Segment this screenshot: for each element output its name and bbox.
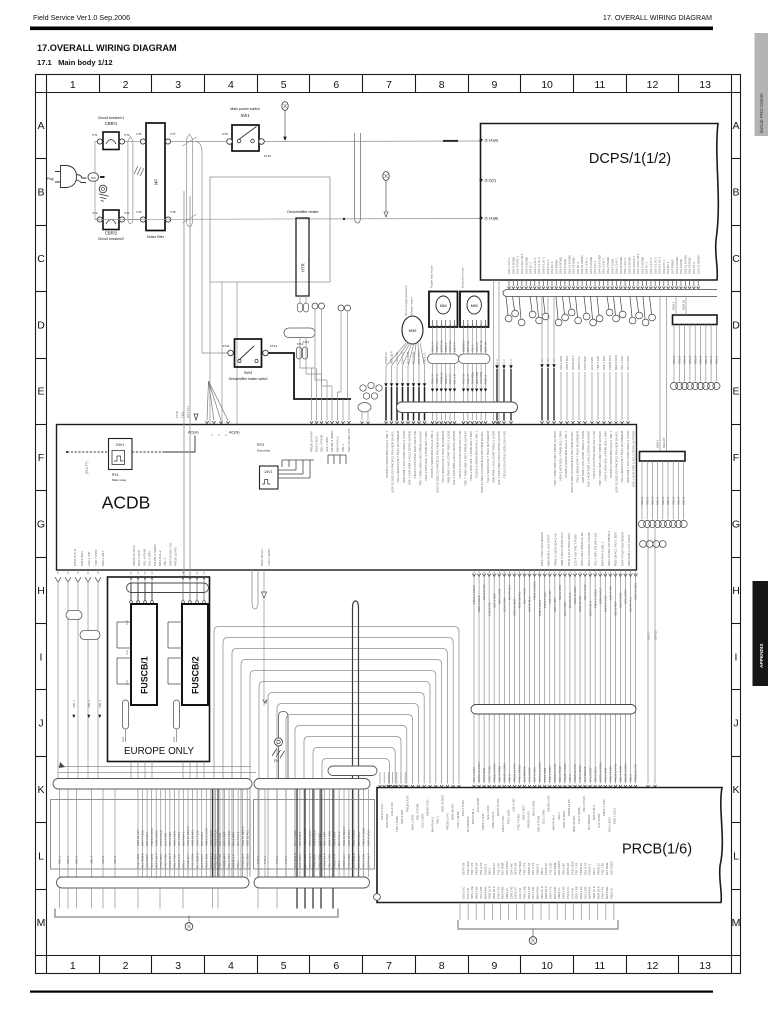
svg-text:M65 PHB-1: M65 PHB-1 — [357, 831, 361, 846]
svg-text:SOL-9: SOL-9 — [651, 496, 655, 505]
nested corner bus — [214, 627, 459, 878]
svg-text:M: M — [37, 917, 46, 929]
svg-text:CN105-3 SG: CN105-3 SG — [547, 795, 551, 812]
svg-text:CN105-3 SGND M64 PHA-2 VBL 1: CN105-3 SGND M64 PHA-2 VBL 1 — [564, 431, 568, 478]
circuit breaker CBR/1 — [93, 116, 130, 150]
ACDB interior tall labels group2 — [553, 430, 635, 493]
svg-text:PS12 SGN: PS12 SGN — [80, 551, 84, 566]
svg-text:I: I — [40, 651, 43, 663]
nested bus arrows into PRCB — [379, 772, 461, 787]
svg-text:PRCB-1A P: PRCB-1A P — [323, 853, 327, 868]
svg-text:13: 13 — [699, 960, 711, 972]
svg-text:TRC 7 P38V SD5-1 RET PRCB-1A P: TRC 7 P38V SD5-1 RET PRCB-1A P24V — [419, 431, 423, 486]
M64 wires upper — [431, 327, 457, 354]
svg-text:S21-1 DRV: S21-1 DRV — [420, 813, 424, 828]
svg-text:FM21-2 LOC: FM21-2 LOC — [602, 799, 606, 816]
open triangle node — [262, 592, 267, 598]
svg-text:S21-1 DRV: S21-1 DRV — [325, 437, 329, 452]
svg-text:M64 PHA: M64 PHA — [466, 340, 470, 352]
svg-text:VBL 1: VBL 1 — [557, 812, 561, 820]
svg-text:FM21-2 L: FM21-2 L — [423, 352, 427, 364]
svg-text:CN105-3: CN105-3 — [462, 341, 466, 352]
svg-text:Sub relay: Sub relay — [257, 449, 271, 453]
svg-text:M64 PHA-2: M64 PHA-2 — [337, 831, 341, 846]
svg-text:S24-1 ACN: S24-1 ACN — [150, 854, 154, 868]
svg-text:HV1 CON: HV1 CON — [479, 372, 483, 384]
svg-text:DCPS-3A PGN: DCPS-3A PGN — [538, 763, 542, 782]
svg-text:HV1 CONT: HV1 CONT — [417, 350, 421, 364]
svg-text:DCPS-3A P: DCPS-3A P — [571, 355, 575, 370]
ACDB distribution board — [57, 425, 637, 571]
svg-text:CN105-3 SGN: CN105-3 SGN — [502, 763, 506, 782]
svg-text:FUSCB/2: FUSCB/2 — [191, 656, 201, 694]
svg-text:(PL1 FT): (PL1 FT) — [186, 406, 190, 418]
svg-text:TY1 2: TY1 2 — [263, 856, 267, 864]
svg-text:TH2-1 SENS CN4-7 P12V RL5 REM-: TH2-1 SENS CN4-7 P12V RL5 REM-B — [620, 431, 624, 483]
svg-text:LD2-4 VID: LD2-4 VID — [590, 357, 594, 370]
M64 pill connector — [428, 354, 460, 364]
europe top pin labels — [130, 583, 206, 603]
hatch marks — [134, 166, 144, 176]
FG ground — [263, 699, 288, 781]
svg-text:HV1 CONT: HV1 CONT — [357, 854, 361, 868]
svg-text:NGB 1B ACL: NGB 1B ACL — [191, 829, 195, 846]
screw terminal mid — [383, 172, 389, 181]
svg-text:S24-1 A: S24-1 A — [431, 342, 435, 352]
right pair to PRCB — [647, 528, 658, 787]
bottom pill C — [57, 877, 250, 888]
svg-text:SD5-1 RET PRCB-1A P2: SD5-1 RET PRCB-1A P2 — [580, 532, 584, 566]
svg-text:CN31-5 CLK: CN31-5 CLK — [159, 830, 163, 846]
svg-text:SOL-9: SOL-9 — [693, 355, 697, 364]
svg-text:CBR 2 ACL: CBR 2 ACL — [565, 355, 569, 370]
svg-text:ACDB: ACDB — [102, 493, 151, 513]
svg-text:SOL-9: SOL-9 — [656, 496, 660, 505]
svg-text:SOL-9: SOL-9 — [715, 355, 719, 364]
bar1 connector circles — [670, 382, 677, 389]
svg-text:CBR 2 ACL2: CBR 2 ACL2 — [308, 830, 312, 846]
wire loop verticals to ACDB — [209, 282, 211, 424]
relay bar CN bar2 — [640, 452, 686, 462]
wires pair below bus left — [493, 280, 495, 421]
svg-text:3: 3 — [175, 960, 181, 972]
svg-text:SGN 16 DEC: SGN 16 DEC — [562, 811, 566, 828]
svg-text:TH2-1 SENS CN4-7 P12V RL5 REM-: TH2-1 SENS CN4-7 P12V RL5 REM-B — [396, 431, 400, 483]
svg-text:SGN 16 DEC: SGN 16 DEC — [441, 795, 445, 812]
svg-text:PRCB-12 P: PRCB-12 P — [241, 853, 245, 868]
DCPS input terminals — [480, 139, 499, 221]
svg-text:TY1 1: TY1 1 — [256, 856, 260, 864]
svg-text:5: 5 — [281, 960, 287, 972]
svg-text:F: F — [38, 452, 44, 464]
svg-text:SGN 16 DEC-CO PRCB-12 P5V NGB: SGN 16 DEC-CO PRCB-12 P5V NGB 1B ACL — [480, 431, 484, 493]
svg-text:SGN 16 DEC-CO: SGN 16 DEC-CO — [168, 542, 172, 566]
svg-text:release motor: release motor — [410, 297, 414, 316]
svg-text:RL5 REM-: RL5 REM- — [406, 351, 410, 364]
svg-text:NGB 1B A: NGB 1B A — [390, 351, 394, 364]
svg-text:RL5 REM-B: RL5 REM-B — [141, 853, 145, 868]
svg-text:SGN 16 DEC-CO PRCB-12 P5V NGB: SGN 16 DEC-CO PRCB-12 P5V NGB 1B ACL — [435, 431, 439, 493]
svg-text:FM21-2 LOCK: FM21-2 LOCK — [593, 589, 597, 608]
wire pair loop small — [128, 137, 133, 224]
TB2 wires and labels — [256, 789, 370, 877]
big pill connector — [397, 402, 518, 413]
svg-text:NGB 1B ACL: NGB 1B ACL — [245, 829, 249, 846]
svg-text:RY1: RY1 — [112, 473, 119, 477]
svg-text:10: 10 — [541, 960, 553, 972]
svg-text:S21-1 DRV: S21-1 DRV — [502, 597, 506, 612]
svg-text:S63-12 SGND: S63-12 SGND — [696, 256, 700, 274]
svg-text:SOL-9: SOL-9 — [661, 496, 665, 505]
svg-text:NGA 2 ACN: NGA 2 ACN — [614, 355, 618, 370]
DCPS connector clusters — [505, 297, 655, 326]
svg-text:FU2: FU2 — [126, 620, 129, 625]
svg-text:VBL 1: VBL 1 — [436, 816, 440, 824]
PRCB bottom wires — [460, 903, 614, 921]
svg-text:TRC 7 P38: TRC 7 P38 — [218, 854, 222, 868]
svg-text:HV1 CONT: HV1 CONT — [609, 861, 613, 875]
tab APPENDIX — [753, 581, 768, 686]
svg-text:Circuit breaker/1: Circuit breaker/1 — [98, 116, 124, 120]
svg-text:S24-1 ACN CBR 2 ACL2 DCPS-3A P: S24-1 ACN CBR 2 ACL2 DCPS-3A PGND — [631, 430, 635, 487]
svg-text:PRCB(1/6): PRCB(1/6) — [622, 842, 692, 858]
svg-text:FT11: FT11 — [223, 344, 230, 348]
svg-text:S24-1 ACN: S24-1 ACN — [593, 768, 597, 782]
svg-text:PS12 SGN: PS12 SGN — [603, 768, 607, 782]
fuse pills below — [123, 700, 129, 729]
footer rule — [30, 991, 713, 993]
svg-text:NGA 2 A: NGA 2 A — [444, 373, 448, 384]
svg-text:VBL 1: VBL 1 — [568, 774, 572, 782]
svg-text:M65 PHB-1 HV1 CONT: M65 PHB-1 HV1 CONT — [627, 534, 631, 566]
bottom pill strip B — [254, 779, 370, 790]
svg-text:SOL-9: SOL-9 — [688, 355, 692, 364]
svg-text:FM21-2 LOCK: FM21-2 LOCK — [533, 581, 537, 600]
svg-text:FT15: FT15 — [175, 411, 179, 418]
svg-text:S24-1 ACN: S24-1 ACN — [472, 768, 476, 782]
svg-text:M65: M65 — [471, 304, 478, 308]
svg-text:A: A — [732, 120, 739, 132]
svg-text:TRC 7 P38V: TRC 7 P38V — [548, 766, 552, 782]
svg-text:NGA 2 ACN SOL-4 P24B: NGA 2 ACN SOL-4 P24B — [587, 532, 591, 566]
svg-text:FU1: FU1 — [121, 737, 125, 742]
svg-text:SGN 16 DEC-CO PRCB-1: SGN 16 DEC-CO PRCB-1 — [607, 530, 611, 566]
svg-text:PS12 SGN: PS12 SGN — [543, 768, 547, 782]
svg-text:TRC 7 P: TRC 7 P — [431, 373, 435, 384]
svg-text:M65 PHB-1 HV1 CONT FM21-2 LOCK: M65 PHB-1 HV1 CONT FM21-2 LOCK — [402, 431, 406, 483]
svg-text:150: 150 — [91, 176, 96, 180]
svg-text:NGA 2 ACN: NGA 2 ACN — [619, 593, 623, 608]
svg-text:SD5-1 RET: SD5-1 RET — [553, 597, 557, 612]
svg-text:VBL 1: VBL 1 — [507, 774, 511, 782]
bottom bracket left — [55, 909, 338, 918]
svg-text:CN4-7 P12V: CN4-7 P12V — [583, 584, 587, 600]
svg-text:SD5-1 RET: SD5-1 RET — [492, 593, 496, 608]
loopback pill c — [66, 611, 82, 620]
svg-text:1: 1 — [70, 79, 76, 91]
svg-text:SGN 16 DEC-C: SGN 16 DEC-C — [342, 826, 346, 846]
svg-text:RL5 REM-B: RL5 REM-B — [523, 767, 527, 782]
HTR leads — [299, 296, 301, 309]
dehumidifier loop rect — [210, 177, 330, 282]
svg-text:TRC 7 P38V SD5-1 RET PRCB-1A P: TRC 7 P38V SD5-1 RET PRCB-1A P24V — [553, 431, 557, 486]
svg-text:VBL 1: VBL 1 — [236, 860, 240, 868]
triple wires group 1 — [495, 359, 513, 424]
svg-text:PS12 SGN: PS12 SGN — [583, 356, 587, 370]
svg-text:DCPS-3A PGN: DCPS-3A PGN — [598, 763, 602, 782]
svg-text:SOL-9: SOL-9 — [640, 496, 644, 505]
svg-text:VBL 1: VBL 1 — [72, 700, 76, 708]
DCPS output pins and labels — [507, 253, 700, 288]
svg-text:FU2: FU2 — [172, 737, 176, 742]
svg-text:LD2-4 VID: LD2-4 VID — [218, 833, 222, 846]
PRCB top pin labels — [380, 795, 616, 832]
svg-text:5: 5 — [281, 79, 287, 91]
svg-text:LD2-4 VID: LD2-4 VID — [511, 799, 515, 813]
svg-text:17.OVERALL WIRING DIAGRAM: 17.OVERALL WIRING DIAGRAM — [37, 43, 177, 53]
svg-text:L: L — [38, 850, 44, 862]
ACDB bottom labels right — [540, 530, 631, 566]
svg-text:SGN 16 DEC-C: SGN 16 DEC-C — [241, 826, 245, 846]
svg-text:A: A — [37, 120, 44, 132]
svg-text:SW3: SW3 — [244, 371, 252, 375]
svg-text:PS12 SGN: PS12 SGN — [506, 810, 510, 824]
svg-text:M65 PHB-1 HV1 CONT FM21-2 LOCK: M65 PHB-1 HV1 CONT FM21-2 LOCK — [581, 431, 585, 483]
svg-text:TY1 3: TY1 3 — [275, 856, 279, 864]
svg-text:LD2-4 VID: LD2-4 VID — [163, 833, 167, 846]
svg-text:Plug: Plug — [47, 177, 54, 181]
svg-text:M64 PHA-2: M64 PHA-2 — [182, 831, 186, 846]
relay bar CN bar1 — [673, 315, 718, 325]
svg-text:NGA 1B: NGA 1B — [682, 300, 686, 310]
svg-text:FUSCB/1: FUSCB/1 — [140, 656, 150, 694]
wires clusters to ACDB right — [559, 355, 630, 423]
svg-text:SOL-9: SOL-9 — [671, 496, 675, 505]
svg-text:24V1: 24V1 — [116, 443, 124, 447]
svg-text:NGA 2 ACN SOL-4 P24B S21-1 DRV: NGA 2 ACN SOL-4 P24B S21-1 DRV — [559, 431, 563, 480]
svg-text:SOL-4 P24B: SOL-4 P24B — [619, 766, 623, 782]
svg-text:FT1: FT1 — [93, 133, 98, 137]
svg-text:FT12: FT12 — [270, 344, 277, 348]
svg-text:CN31-5 CL: CN31-5 CL — [577, 356, 581, 370]
svg-text:NGA 1: NGA 1 — [672, 301, 676, 310]
svg-text:SOL-4 P24B: SOL-4 P24B — [497, 766, 501, 782]
svg-text:SGN 16 DEC-CO PRCB-12 P5V NGB: SGN 16 DEC-CO PRCB-12 P5V NGB 1B ACL — [570, 431, 574, 493]
PRCB inner connector labels — [462, 861, 614, 899]
ACDB bottom labels mid — [132, 542, 178, 566]
svg-text:PRCB-1A P: PRCB-1A P — [608, 355, 612, 370]
svg-text:CBR 2 ACL2: CBR 2 ACL2 — [612, 807, 616, 824]
svg-text:NGB 1B ACL: NGB 1B ACL — [451, 803, 455, 820]
svg-text:TH2-1 SE: TH2-1 SE — [395, 352, 399, 364]
svg-text:CN105-3 SGND M64 PHA-2 VBL 1: CN105-3 SGND M64 PHA-2 VBL 1 — [430, 431, 434, 478]
svg-text:CN31-5 CLK PS12 SGN: CN31-5 CLK PS12 SGN — [567, 533, 571, 566]
svg-text:VBL 1: VBL 1 — [337, 860, 341, 868]
svg-text:VBL 1: VBL 1 — [341, 444, 345, 452]
svg-text:FM21-2: FM21-2 — [484, 374, 488, 384]
svg-text:PS12 SGN: PS12 SGN — [385, 814, 389, 828]
svg-text:SOL-9: SOL-9 — [666, 496, 670, 505]
svg-text:LD2-4 VID: LD2-4 VID — [87, 551, 91, 566]
left group arrows — [72, 715, 101, 718]
svg-text:DCPS-3A PGN: DCPS-3A PGN — [477, 763, 481, 782]
svg-text:NGA 2 ACN: NGA 2 ACN — [532, 801, 536, 816]
dehumidifier heater switch SW3 — [223, 339, 278, 381]
noise filter NF — [137, 123, 176, 239]
svg-text:NGA 2 ACN: NGA 2 ACN — [558, 585, 562, 600]
svg-text:D: D — [37, 319, 45, 331]
svg-text:M65 PHB-1: M65 PHB-1 — [200, 831, 204, 846]
svg-text:DCPS-3A P: DCPS-3A P — [154, 853, 158, 868]
connector pair a — [312, 303, 318, 309]
svg-text:NGA 2 ACN: NGA 2 ACN — [327, 831, 331, 846]
svg-text:I: I — [735, 651, 738, 663]
svg-text:PRCB-12 P5V: PRCB-12 P5V — [174, 547, 178, 566]
wire branch curve down — [196, 142, 228, 354]
svg-text:CN105-3 SGND M64 PHA-2 VBL 1: CN105-3 SGND M64 PHA-2 VBL 1 — [475, 431, 479, 478]
svg-text:M65 PHB-: M65 PHB- — [412, 351, 416, 364]
svg-text:FM21-2 LOCK: FM21-2 LOCK — [204, 828, 208, 846]
ACDB bottom labels left — [73, 549, 105, 566]
svg-text:NGB 1B: NGB 1B — [484, 342, 488, 352]
svg-text:SOL-9: SOL-9 — [677, 355, 681, 364]
svg-text:FT10: FT10 — [264, 154, 271, 158]
svg-text:TRC 7 P38V: TRC 7 P38V — [487, 766, 491, 782]
svg-text:C: C — [732, 253, 740, 265]
wire long AC N line — [95, 219, 480, 220]
svg-text:NGA 2 ACN: NGA 2 ACN — [137, 550, 141, 566]
frame row letters — [37, 120, 741, 929]
svg-text:Dehumidifier heater: Dehumidifier heater — [287, 210, 319, 214]
svg-text:FM21-2 LOCK: FM21-2 LOCK — [472, 585, 476, 604]
svg-text:DCPS-3A P: DCPS-3A P — [367, 853, 371, 868]
svg-text:Decurler motor: Decurler motor — [461, 268, 465, 288]
svg-text:NGA 2 ACN: NGA 2 ACN — [315, 436, 319, 452]
terminal block TB1 — [51, 800, 251, 870]
svg-text:S24 1: S24 1 — [647, 632, 651, 640]
M65 wires upper — [462, 327, 488, 354]
svg-text:FM21-2 LOC: FM21-2 LOC — [481, 813, 485, 830]
svg-text:S21-1 DRV CN105-3 SG: S21-1 DRV CN105-3 SG — [594, 532, 598, 566]
svg-text:SOL-4 P24: SOL-4 P24 — [173, 854, 177, 868]
svg-text:RL5 REM-B: RL5 REM-B — [587, 815, 591, 830]
svg-text:TH2-1 SEN: TH2-1 SEN — [245, 854, 249, 868]
svg-text:S24-1 ACN: S24-1 ACN — [486, 806, 490, 820]
connector pair b — [338, 305, 344, 311]
svg-text:CN4-7 P1: CN4-7 P1 — [401, 351, 405, 364]
svg-text:SOL-9: SOL-9 — [677, 496, 681, 505]
svg-text:CN31-5 CLK PS12 SGN LD2-4 VID: CN31-5 CLK PS12 SGN LD2-4 VID — [458, 430, 462, 478]
svg-text:Dehumidifier heater switch: Dehumidifier heater switch — [229, 377, 268, 381]
svg-text:TRC 7 P38: TRC 7 P38 — [596, 356, 600, 370]
svg-text:CN4-7 P12V: CN4-7 P12V — [352, 830, 356, 846]
svg-text:TH2-1 SENS: TH2-1 SENS — [578, 765, 582, 782]
DCPS power supply block — [481, 124, 719, 281]
svg-text:VBL 1: VBL 1 — [58, 856, 62, 864]
svg-text:SD5-1 RET: SD5-1 RET — [101, 550, 105, 566]
svg-text:M64 PHA-2: M64 PHA-2 — [336, 436, 340, 452]
svg-text:4: 4 — [228, 79, 234, 91]
svg-text:VBL 2: VBL 2 — [87, 700, 91, 708]
svg-text:S24-1 ACN: S24-1 ACN — [607, 818, 611, 832]
bar1 output wires with solenoid labels — [670, 325, 720, 390]
bottom pill D — [254, 877, 370, 888]
svg-text:CBR/1: CBR/1 — [105, 121, 118, 126]
svg-text:M64 PHA-2: M64 PHA-2 — [629, 597, 633, 612]
pin comb 2 — [328, 455, 346, 464]
svg-text:SGN 16 DEC-CO PRCB-12 P5V NGB: SGN 16 DEC-CO PRCB-12 P5V NGB 1B ACL — [615, 431, 619, 493]
svg-text:RL5 REM-B: RL5 REM-B — [583, 767, 587, 782]
circuit breaker CBR/2 — [93, 210, 130, 241]
svg-text:CN31-5 CLK: CN31-5 CLK — [543, 592, 547, 608]
svg-text:PRCB-1A: PRCB-1A — [439, 372, 443, 384]
ACDB right circles — [640, 541, 667, 548]
screw terminal E1 — [99, 185, 107, 193]
svg-text:Field Service Ver1.0 Sep.2006: Field Service Ver1.0 Sep.2006 — [33, 13, 130, 22]
svg-text:APPENDIX: APPENDIX — [759, 643, 765, 668]
svg-text:PRCB-12 P: PRCB-12 P — [186, 853, 190, 868]
svg-text:SOL-9: SOL-9 — [683, 355, 687, 364]
svg-text:RL5 REM-B: RL5 REM-B — [352, 853, 356, 868]
bar1 feed wires — [675, 297, 677, 316]
svg-text:DCPS/1(1/2): DCPS/1(1/2) — [589, 151, 671, 167]
svg-text:SGN 16 DEC-: SGN 16 DEC- — [513, 598, 517, 616]
TB1 sparse wires — [58, 789, 117, 877]
svg-text:TRC 7 P38V SD5-1 RET PRCB-1A P: TRC 7 P38V SD5-1 RET PRCB-1A P24V — [598, 431, 602, 486]
svg-text:H: H — [37, 585, 45, 597]
svg-text:M65 PHB: M65 PHB — [475, 372, 479, 384]
fan wires into ACDB — [205, 381, 229, 424]
wire plug to breakers — [94, 142, 96, 220]
svg-text:M65 PHB-1: M65 PHB-1 — [592, 805, 596, 820]
svg-text:CN31-5: CN31-5 — [444, 342, 448, 352]
svg-text:NGB 1B ACL: NGB 1B ACL — [136, 829, 140, 846]
svg-text:PRCB-1A P24: PRCB-1A P24 — [614, 763, 618, 782]
PRCB bottom bracket — [458, 920, 618, 929]
svg-text:PRCB-1A P24V: PRCB-1A P24V — [310, 431, 314, 452]
svg-text:Main relay: Main relay — [112, 478, 127, 482]
svg-text:NGA 2 ACN: NGA 2 ACN — [173, 831, 177, 846]
svg-text:NGB 1B ACL: NGB 1B ACL — [347, 829, 351, 846]
svg-text:S21-1 DRV: S21-1 DRV — [148, 551, 152, 566]
svg-text:M65 PHB-1 HV1 CONT FM21-2 LOCK: M65 PHB-1 HV1 CONT FM21-2 LOCK — [491, 431, 495, 483]
svg-text:PRCB-12 P5: PRCB-12 P5 — [567, 799, 571, 816]
svg-text:CBR 2 ACL2: CBR 2 ACL2 — [538, 599, 542, 616]
small cluster connector — [360, 382, 382, 399]
svg-text:TRC 7 P38V SD5-1 RET PRCB-1A P: TRC 7 P38V SD5-1 RET PRCB-1A P24V — [463, 431, 467, 486]
bar2 output wires — [638, 461, 687, 528]
svg-text:NGA 2 ACN: NGA 2 ACN — [227, 831, 231, 846]
svg-text:PRCB-1A P: PRCB-1A P — [223, 853, 227, 868]
bar2 connector circles — [638, 520, 645, 527]
svg-text:CN31-5 CLK: CN31-5 CLK — [482, 584, 486, 600]
svg-text:M64 PHA-2: M64 PHA-2 — [507, 585, 511, 600]
svg-text:LD2-4 V: LD2-4 V — [453, 342, 457, 352]
svg-text:SOL-9: SOL-9 — [699, 355, 703, 364]
svg-text:TH2-1 S: TH2-1 S — [462, 374, 466, 384]
svg-text:LD2-4 VID: LD2-4 VID — [548, 591, 552, 605]
svg-text:M64 PHA-2: M64 PHA-2 — [568, 593, 572, 608]
svg-text:NGB 1B ACL: NGB 1B ACL — [572, 815, 576, 832]
europe outputs down — [131, 762, 204, 780]
svg-text:TH2-1 SEN: TH2-1 SEN — [136, 854, 140, 868]
svg-text:SD5-1 RET: SD5-1 RET — [400, 809, 404, 824]
svg-text:SGN 16 DEC-: SGN 16 DEC- — [573, 586, 577, 604]
svg-text:NGA 2 ACN: NGA 2 ACN — [497, 589, 501, 604]
svg-text:K: K — [37, 784, 44, 796]
header rule — [30, 27, 713, 31]
svg-text:TH2-1 SENS: TH2-1 SENS — [518, 765, 522, 782]
